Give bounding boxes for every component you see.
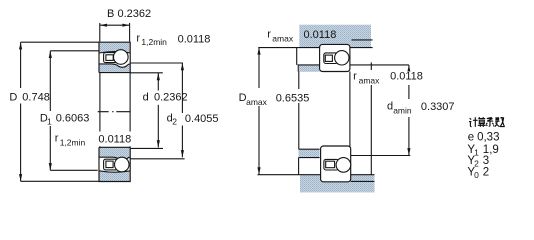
svg-text:1,2min: 1,2min (141, 37, 167, 47)
da face line (left, vertical) (298, 72, 300, 90)
D extension bottom (21, 180, 99, 182)
svg-text:0.6063: 0.6063 (56, 113, 90, 125)
dimension d line (157, 73, 159, 91)
svg-text:0.4055: 0.4055 (185, 113, 219, 125)
arrow Damax top (257, 47, 260, 54)
damin dim line (408, 65, 410, 70)
shaft shoulder upper (blue) (298, 65, 319, 71)
heading 计算系数 (drawn glyphs) (469, 117, 505, 127)
svg-text:0.6535: 0.6535 (276, 93, 310, 105)
outer ring top segment (blue) (99, 42, 130, 53)
shaft shoulder upper left edge (297, 65, 299, 72)
cage lower (right fig) (324, 159, 339, 170)
dimension D1 line (49, 51, 51, 111)
bearing lower bore line (99, 146, 130, 148)
ball lower (right fig) (336, 158, 351, 173)
svg-text:1,2min: 1,2min (60, 137, 86, 147)
svg-text:d: d (143, 92, 149, 104)
arrow Damax bottom (257, 167, 260, 174)
svg-text:r: r (136, 33, 140, 45)
cage lower (104, 159, 118, 170)
damin extension bottom (350, 155, 410, 157)
housing seat line (lower right) (351, 180, 375, 182)
arrow damin top (407, 65, 410, 71)
svg-text:0.0118: 0.0118 (98, 134, 131, 146)
svg-text:2: 2 (483, 167, 489, 179)
ball lower (115, 157, 130, 172)
d2 extension bottom (130, 158, 184, 160)
bearing lower half (right fig) (321, 146, 351, 182)
svg-text:1: 1 (47, 117, 52, 127)
svg-text:0.0118: 0.0118 (304, 29, 337, 41)
shaft shoulder lower bottom line (299, 157, 320, 159)
shaft shoulder lower top line (299, 148, 320, 150)
svg-text:amax: amax (359, 75, 381, 85)
svg-text:D: D (9, 91, 17, 103)
cage window lower (106, 161, 113, 168)
svg-text:r: r (267, 28, 271, 40)
arrow D1 bottom (49, 163, 52, 170)
svg-text:2: 2 (172, 117, 177, 127)
svg-text:amax: amax (246, 97, 268, 107)
arrow D bottom (19, 174, 22, 181)
cage upper (right fig) (324, 53, 338, 64)
char shu (495, 117, 505, 127)
char xi (486, 117, 494, 126)
D1 extension bottom (50, 169, 97, 171)
seat band bottom (blue) (300, 175, 375, 193)
arrow d bottom (157, 140, 160, 147)
svg-text:0.3307: 0.3307 (421, 101, 455, 113)
outer ring bottom raceway edge (99, 171, 130, 172)
shaft shoulder lower (blue) (299, 149, 320, 157)
bearing side face extension (right) (349, 72, 351, 156)
svg-text:0.748: 0.748 (22, 91, 50, 103)
arrow D top (19, 42, 22, 49)
svg-text:0.0118: 0.0118 (390, 71, 423, 83)
svg-text:B: B (107, 8, 114, 20)
d extension bottom (130, 147, 163, 149)
bore side line left (99, 73, 101, 132)
inner ring top raceway edge (99, 64, 130, 67)
svg-text:0.2362: 0.2362 (118, 8, 152, 20)
dimension D line (20, 42, 22, 88)
shoulder diameter extension line (upper right) (350, 64, 409, 66)
axis centerline (98, 111, 131, 113)
ball upper (114, 50, 129, 65)
svg-text:1,9: 1,9 (483, 144, 499, 156)
housing shoulder face (296, 48, 298, 65)
svg-text:amin: amin (393, 106, 412, 116)
cage window lower (right fig) (326, 161, 335, 168)
svg-text:0,33: 0,33 (477, 131, 499, 143)
bearing bottom outline (99, 147, 130, 181)
cage window upper (right fig) (325, 55, 332, 61)
D extension top (21, 41, 99, 43)
ball upper (right fig) (335, 51, 349, 65)
shaft shoulder upper top line (298, 64, 320, 66)
svg-text:r: r (353, 71, 357, 83)
char ji (469, 117, 478, 127)
outer ring top raceway edge (99, 52, 130, 53)
arrow d2 bottom (181, 150, 184, 157)
B extension line left (99, 23, 101, 42)
arrow damin bottom (407, 148, 410, 155)
inner ring bottom segment (blue) (99, 147, 130, 159)
inner ring top segment (blue) (99, 64, 130, 73)
arrow D1 top (49, 51, 52, 58)
svg-text:0: 0 (474, 170, 479, 180)
svg-text:3: 3 (483, 155, 489, 167)
char suan (478, 117, 486, 127)
housing bore line (258, 47, 372, 49)
arrow d2 top (181, 63, 184, 70)
bore side line right (129, 73, 131, 132)
arrow B left (100, 24, 107, 27)
bearing upper bore line (99, 72, 130, 74)
dimension B line (100, 24, 130, 26)
dimension d2 line (181, 63, 183, 113)
svg-text:r: r (55, 132, 59, 144)
Damax dim line (258, 47, 260, 88)
d2 extension top (130, 62, 183, 64)
shoulder face lower vertical (298, 158, 300, 175)
svg-text:0.0118: 0.0118 (178, 33, 211, 45)
cage window upper (106, 55, 113, 61)
arrow d top (157, 73, 160, 80)
bore side stubs above lower half (99, 146, 101, 147)
B extension line right (129, 23, 131, 42)
seat band top line (258, 174, 375, 176)
housing internal step line (352, 39, 373, 41)
svg-text:amax: amax (272, 34, 294, 44)
d extension top (130, 72, 163, 74)
ra dim line (right) (370, 62, 372, 70)
svg-text:e: e (468, 131, 474, 143)
housing band (blue) (299, 25, 371, 48)
cage upper (104, 53, 119, 63)
inner ring bottom raceway edge (99, 157, 130, 159)
outer ring bottom segment (blue) (99, 171, 130, 182)
arrow B right (122, 24, 129, 27)
D1 extension top (50, 50, 99, 52)
bearing top outline (99, 42, 130, 72)
bearing upper half (right fig) (320, 44, 350, 71)
